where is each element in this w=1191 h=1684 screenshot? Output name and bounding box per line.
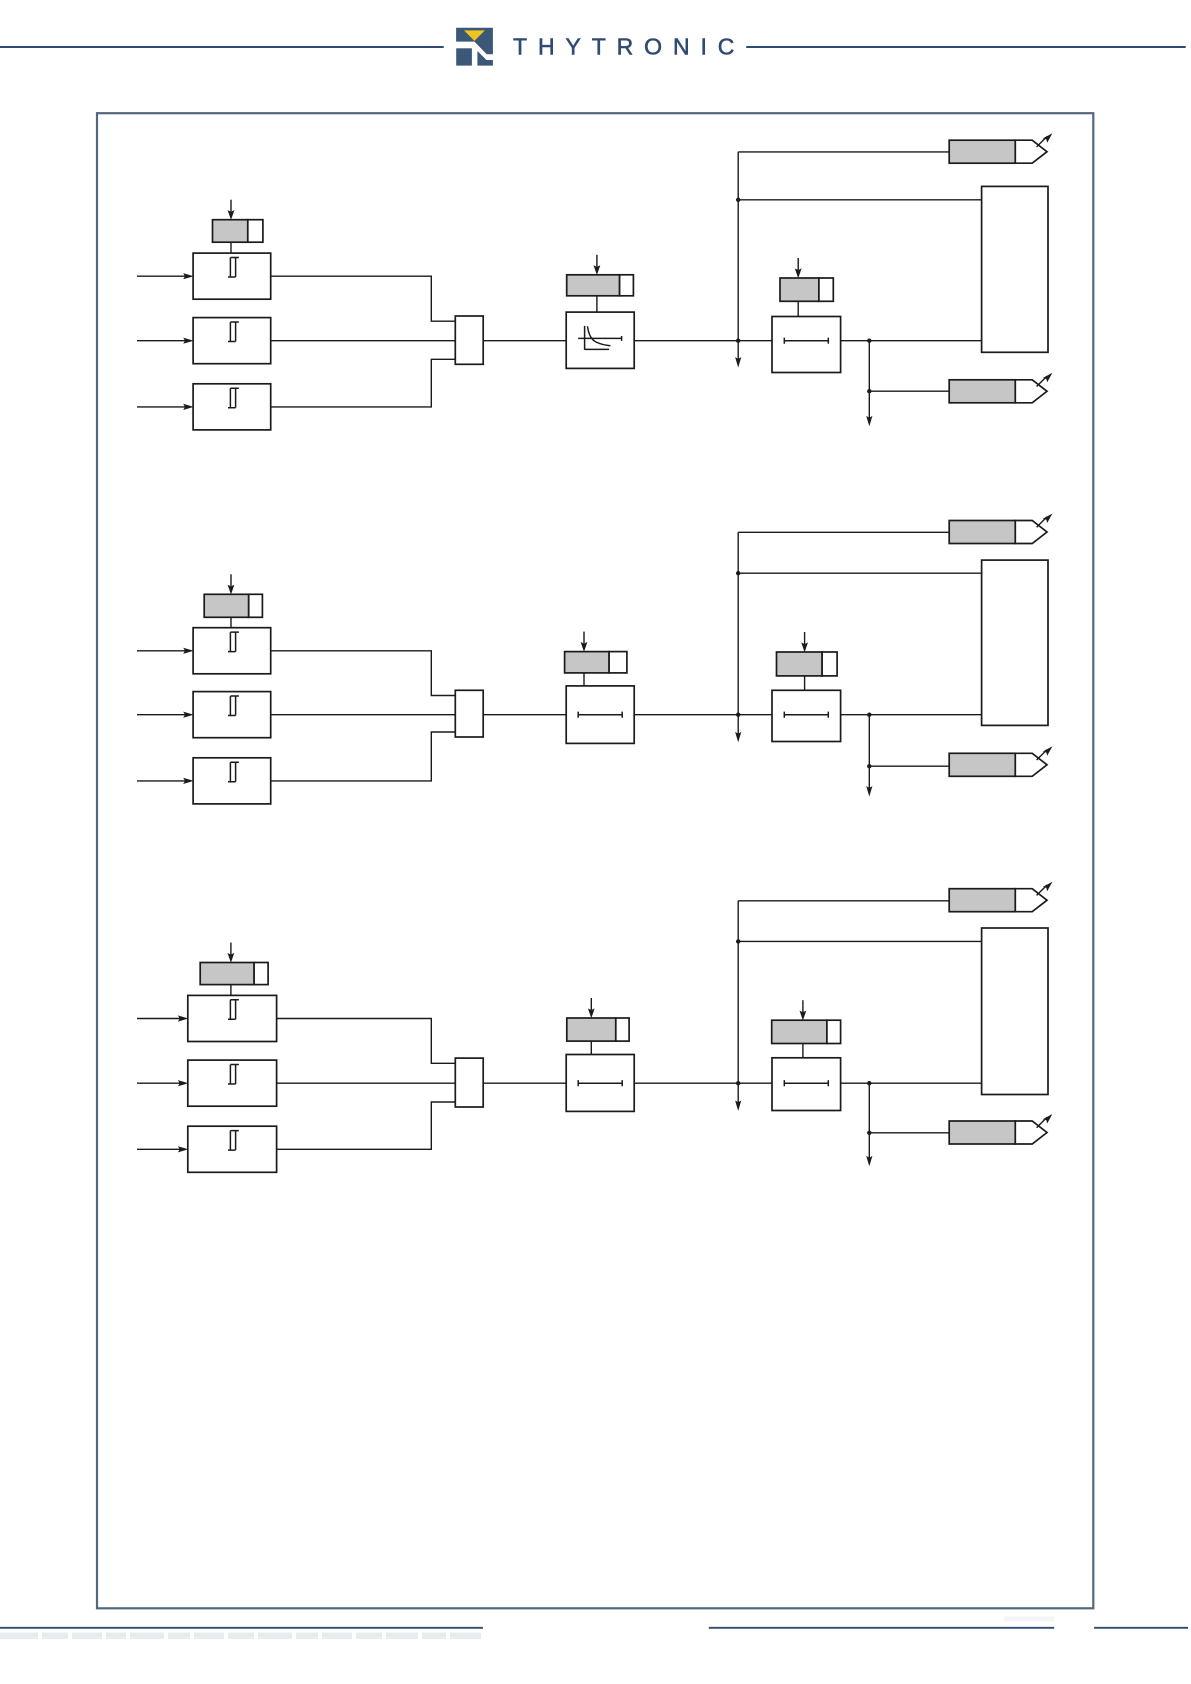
down arrow start output <box>735 1083 741 1111</box>
S2.1 threshold setting box <box>204 594 262 617</box>
start riser wire <box>737 901 739 1083</box>
input wire L1 (diagram 3) <box>137 1015 188 1021</box>
junction riser/matrix rail <box>736 939 740 943</box>
wire OR gate to timer T1 <box>483 340 566 342</box>
input wire L2 (diagram 3) <box>137 1080 188 1086</box>
junction trip flag wire <box>867 764 871 768</box>
T1 time setting box <box>567 275 634 296</box>
level comparator U3A (L1) <box>188 995 277 1041</box>
wire from D1 delay setting box <box>797 301 799 316</box>
junction riser/matrix rail <box>736 571 740 575</box>
delay element D3 <box>772 1058 841 1111</box>
level comparator U2B (L2) <box>193 692 271 738</box>
level comparator U2C (L3) <box>193 758 271 804</box>
junction riser/matrix rail <box>736 198 740 202</box>
input wire L1 (diagram 1) <box>137 273 194 279</box>
wire from S2.1 threshold setting box <box>230 617 232 627</box>
trip branch wire <box>868 715 870 767</box>
arrow into T2 time setting box <box>581 632 588 652</box>
trip branch wire <box>868 1083 870 1133</box>
wire comparator B to OR gate <box>271 340 456 342</box>
level comparator U1C (L3) <box>193 384 271 430</box>
trip branch wire <box>868 341 870 392</box>
trip (diagram 3) output flag <box>949 1114 1052 1144</box>
start riser wire <box>737 532 739 714</box>
wire to trip flag <box>869 1132 949 1134</box>
wire comparator C to OR gate <box>277 1102 456 1149</box>
wire comparator A to OR gate <box>271 651 456 696</box>
input wire L2 (diagram 1) <box>137 338 194 344</box>
level comparator U3B (L2) <box>188 1060 277 1106</box>
start (diagram 3) output flag <box>949 882 1052 912</box>
footer rule right <box>1094 1627 1188 1629</box>
wire from D3 delay setting box <box>802 1044 804 1058</box>
wire timer T3 to delay <box>634 1082 772 1084</box>
trip (diagram 2) output flag <box>949 746 1052 776</box>
arrow into D1 delay setting box <box>795 258 802 278</box>
output matrix block M3 <box>982 928 1048 1095</box>
wire delay to output matrix <box>841 1082 982 1084</box>
wire from T3 time setting box <box>590 1041 592 1054</box>
input wire L3 (diagram 1) <box>137 404 194 410</box>
matrix rail wire <box>738 940 981 942</box>
input wire L1 (diagram 2) <box>137 648 194 654</box>
down arrow start output <box>735 715 741 743</box>
arrow into S2.1 threshold setting box <box>228 574 235 594</box>
delay element D2 <box>772 690 841 741</box>
arrow into S1.1 threshold setting box <box>228 200 235 220</box>
matrix rail wire <box>738 572 981 574</box>
T3 time setting box <box>567 1018 629 1041</box>
wire from S3.1 threshold setting box <box>230 985 232 996</box>
wire from S1.1 threshold setting box <box>230 242 232 253</box>
top rail wire to start flag <box>738 900 949 902</box>
S1.1 threshold setting box <box>213 220 263 243</box>
down arrow trip output <box>866 391 872 426</box>
trip (diagram 1) output flag <box>949 373 1052 403</box>
header rule right <box>746 46 1185 48</box>
S3.1 threshold setting box <box>200 963 268 985</box>
wire comparator A to OR gate <box>277 1019 456 1064</box>
diagram frame <box>97 113 1093 1608</box>
footer rule middle <box>709 1627 1054 1629</box>
wire comparator B to OR gate <box>277 1082 456 1084</box>
junction trip flag wire <box>867 389 871 393</box>
svg-text:THYTRONIC: THYTRONIC <box>513 34 745 60</box>
wire OR gate to timer T2 <box>483 714 566 716</box>
junction riser/main wire <box>736 713 740 717</box>
wire timer T2 to delay <box>634 714 772 716</box>
wire comparator B to OR gate <box>271 714 456 716</box>
arrow into D2 delay setting box <box>801 632 808 652</box>
output matrix block M1 <box>982 186 1048 352</box>
faint footer text band <box>0 1633 481 1640</box>
junction riser/main wire <box>736 339 740 343</box>
junction trip branch <box>867 713 871 717</box>
delay element D1 <box>772 317 841 373</box>
wire timer T1 to delay <box>634 340 772 342</box>
header rule left <box>0 46 444 48</box>
input wire L3 (diagram 3) <box>137 1146 188 1152</box>
wire from T1 time setting box <box>596 296 598 312</box>
level comparator U2A (L1) <box>193 628 271 674</box>
top rail wire to start flag <box>738 151 949 153</box>
faint page number text <box>1004 1617 1054 1622</box>
wire from T2 time setting box <box>583 673 585 686</box>
start (diagram 1) output flag <box>949 133 1052 163</box>
down arrow trip output <box>866 1133 872 1167</box>
wire to trip flag <box>869 390 949 392</box>
OR gate G1 <box>455 316 483 364</box>
input wire L2 (diagram 2) <box>137 712 194 718</box>
footer rule left <box>0 1627 483 1629</box>
down arrow start output <box>735 341 741 368</box>
down arrow trip output <box>866 766 872 796</box>
junction trip flag wire <box>867 1131 871 1135</box>
wire comparator C to OR gate <box>271 359 456 407</box>
D3 delay setting box <box>772 1020 841 1043</box>
start riser wire <box>737 152 739 341</box>
output matrix block M2 <box>982 560 1048 725</box>
OR gate G3 <box>455 1058 483 1107</box>
D2 delay setting box <box>777 652 838 676</box>
wire from D2 delay setting box <box>804 676 806 690</box>
arrow into T1 time setting box <box>594 255 601 275</box>
arrow into D3 delay setting box <box>800 1000 807 1020</box>
arrow into S3.1 threshold setting box <box>228 943 235 963</box>
wire delay to output matrix <box>841 714 982 716</box>
wire delay to output matrix <box>841 340 982 342</box>
arrow into T3 time setting box <box>588 998 595 1018</box>
level comparator U1A (L1) <box>193 253 271 299</box>
Thytronic logo mark <box>456 28 493 66</box>
top rail wire to start flag <box>738 531 949 533</box>
OR gate G2 <box>455 690 483 737</box>
level comparator U3C (L3) <box>188 1126 277 1172</box>
wire OR gate to timer T3 <box>483 1082 566 1084</box>
timer T1 <box>566 312 634 368</box>
timer T3 <box>566 1055 634 1112</box>
junction trip branch <box>867 339 871 343</box>
start (diagram 2) output flag <box>949 514 1052 544</box>
wire comparator A to OR gate <box>271 276 456 321</box>
junction riser/main wire <box>736 1081 740 1085</box>
wire comparator C to OR gate <box>271 732 456 781</box>
matrix rail wire <box>738 199 981 201</box>
D1 delay setting box <box>780 278 833 301</box>
T2 time setting box <box>565 652 627 673</box>
junction trip branch <box>867 1081 871 1085</box>
level comparator U1B (L2) <box>193 318 271 364</box>
input wire L3 (diagram 2) <box>137 778 194 784</box>
wire to trip flag <box>869 765 949 767</box>
timer T2 <box>566 686 634 744</box>
